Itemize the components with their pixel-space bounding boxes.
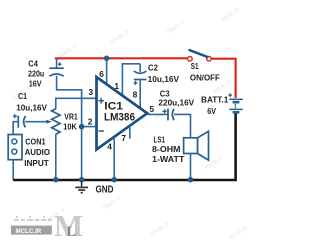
svg-text:10K: 10K <box>63 122 77 132</box>
svg-text:3: 3 <box>88 87 93 97</box>
switch S1 contact left <box>188 57 193 62</box>
pin label 7 <box>121 133 126 143</box>
watermark logo M <box>54 208 83 243</box>
pin label 4 <box>107 142 112 152</box>
capacitor C3 flat plate <box>167 109 169 121</box>
svg-text:AUDIO: AUDIO <box>25 147 51 157</box>
pin label 6 <box>99 69 104 79</box>
label VR1 <box>64 112 78 122</box>
svg-text:6: 6 <box>99 69 104 79</box>
svg-text:MCLC.IR: MCLC.IR <box>16 228 42 235</box>
label AUDIO <box>25 147 51 157</box>
wire battery negative and ground bus black <box>13 114 235 181</box>
battery BATT.1 plus sign <box>228 93 232 97</box>
svg-text:INPUT: INPUT <box>24 158 49 168</box>
wire pin 7 stub <box>129 126 131 139</box>
svg-text:ON/OFF: ON/OFF <box>190 73 220 83</box>
svg-text:4: 4 <box>107 142 112 152</box>
pin label 8 <box>133 89 138 99</box>
label C2 value 10u,16V <box>148 74 180 84</box>
svg-text:C4: C4 <box>28 58 38 68</box>
label BATT.1 <box>201 95 229 105</box>
svg-text:mclc.ir: mclc.ir <box>57 42 79 60</box>
wire speaker to ground bus <box>190 154 192 181</box>
capacitor C4 top lead <box>56 58 58 68</box>
wire pin 4 to ground bus <box>113 137 115 180</box>
wire pin 5 output <box>147 113 168 115</box>
svg-text:220u,16V: 220u,16V <box>158 97 194 107</box>
label VR1 value 10K <box>63 122 77 132</box>
capacitor C2 plus sign <box>133 81 137 85</box>
ground symbol <box>75 181 88 193</box>
capacitor C1 plus sign <box>13 114 17 118</box>
label C4 value 220u <box>28 69 44 79</box>
wire C2 to pin 8 <box>139 80 141 109</box>
node pin2 junction dot <box>79 124 85 130</box>
pin label 2 <box>88 116 93 126</box>
wire CON1 bottom to ground bus <box>12 160 14 181</box>
label GND <box>96 184 114 195</box>
speaker LS1 box <box>184 138 198 154</box>
op-amp plus input mark <box>98 98 104 104</box>
svg-text:7: 7 <box>121 133 126 143</box>
svg-text:mclc.ir: mclc.ir <box>101 194 123 212</box>
label C1 value 10u,16V <box>16 103 47 113</box>
potentiometer VR1 zigzag <box>52 109 60 134</box>
capacitor C1 curved plate <box>24 116 26 127</box>
label S1 <box>191 61 199 71</box>
svg-text:mclc.ir: mclc.ir <box>165 18 187 36</box>
capacitor C3 curved plate <box>172 109 174 120</box>
node dot pin4 on ground bus <box>111 177 117 183</box>
wire pin 3 from VR1 top <box>56 98 97 109</box>
connector CON1 box <box>8 135 22 160</box>
svg-text:C2: C2 <box>148 62 158 72</box>
capacitor C2 flat plate <box>134 79 147 81</box>
label LS1 <box>154 134 166 144</box>
svg-text:16V: 16V <box>29 78 42 88</box>
capacitor C3 plus sign <box>163 109 167 113</box>
svg-text:mclc.ir: mclc.ir <box>219 6 241 24</box>
node dot speaker on ground bus <box>188 177 194 183</box>
pin label 5 <box>149 104 154 114</box>
label 1-WATT <box>152 154 185 164</box>
pin label 3 <box>88 87 93 97</box>
label C2 <box>148 62 158 72</box>
wire C3 to speaker <box>174 114 190 137</box>
svg-text:LM386: LM386 <box>104 111 135 123</box>
capacitor C4 plus sign <box>58 62 62 66</box>
svg-text:1-WATT: 1-WATT <box>152 154 185 164</box>
svg-text:10u,16V: 10u,16V <box>148 74 180 84</box>
wire pin 2 from ground bus <box>82 126 97 128</box>
svg-text:10u,16V: 10u,16V <box>16 103 47 113</box>
potentiometer VR1 wiper arrow <box>25 120 52 124</box>
svg-text:5: 5 <box>149 104 154 114</box>
label IC1 <box>104 101 123 113</box>
label LM386 <box>104 111 135 123</box>
svg-text:VR1: VR1 <box>64 112 78 122</box>
label C4 <box>28 58 38 68</box>
label CON1 <box>25 137 45 147</box>
battery cell dots <box>235 104 237 108</box>
battery BATT.1 plate short bottom <box>233 111 240 114</box>
svg-text:2: 2 <box>88 116 93 126</box>
watermark persian text strokes <box>14 217 52 220</box>
svg-text:LS1: LS1 <box>154 134 166 144</box>
node pin6 junction dot on rail <box>104 56 110 62</box>
svg-text:L: L <box>67 224 77 240</box>
svg-text:mclc.ir: mclc.ir <box>149 220 171 238</box>
wire +V rail red right segment to battery <box>212 59 236 98</box>
connector CON1 pin circle top <box>12 139 17 144</box>
speaker LS1 cone <box>198 131 209 160</box>
wire CON1 to C1 <box>13 122 18 135</box>
svg-text:S1: S1 <box>191 61 199 71</box>
svg-text:8: 8 <box>133 89 138 99</box>
label C3 value 220u,16V <box>158 97 194 107</box>
wire pin 6 vertical <box>106 58 108 84</box>
svg-text:220u: 220u <box>28 69 44 79</box>
svg-text:C1: C1 <box>18 91 27 101</box>
label ON/OFF <box>190 73 220 83</box>
op-amp IC1 triangle <box>97 77 148 150</box>
svg-text:GND: GND <box>96 184 114 195</box>
capacitor C2 top lead <box>139 64 141 72</box>
pin label 1 <box>114 81 119 91</box>
switch S1 lever <box>189 50 209 58</box>
label C3 <box>160 88 170 98</box>
node dot VR1 on ground bus <box>53 177 59 183</box>
svg-text:CON1: CON1 <box>25 137 45 147</box>
svg-text:8-OHM: 8-OHM <box>152 144 181 154</box>
label 8-OHM <box>152 144 181 154</box>
label 6V <box>207 106 216 116</box>
capacitor C2 curved plate <box>134 71 147 73</box>
svg-text:6V: 6V <box>207 106 216 116</box>
svg-text:mclc.ir: mclc.ir <box>109 28 131 46</box>
capacitor C4 flat plate <box>49 67 63 69</box>
battery BATT.1 plate long top <box>229 98 243 100</box>
capacitor C1 flat plate <box>17 116 19 128</box>
label C4 value 16V <box>29 78 42 88</box>
label C1 <box>18 91 27 101</box>
label INPUT <box>24 158 49 168</box>
switch S1 contact right <box>207 57 212 62</box>
battery BATT.1 plate short top <box>233 101 240 104</box>
connector CON1 pin circle bottom <box>12 149 17 154</box>
battery BATT.1 plate long bottom <box>229 108 243 110</box>
wire C4 bottom to ground bus <box>57 76 82 180</box>
watermark MCLC.IR box <box>11 226 52 235</box>
node dot C4 line on ground bus <box>79 177 85 183</box>
op-amp minus input mark <box>98 130 104 132</box>
wire VR1 bottom to ground bus <box>55 134 57 180</box>
wire pin 1 up and right <box>122 64 140 96</box>
capacitor C4 curved plate <box>49 74 63 76</box>
wire +V rail red left segment <box>55 57 188 59</box>
svg-text:mclc.ir: mclc.ir <box>227 224 249 242</box>
watermark tile texts <box>11 6 249 242</box>
svg-text:BATT.1: BATT.1 <box>201 95 229 105</box>
